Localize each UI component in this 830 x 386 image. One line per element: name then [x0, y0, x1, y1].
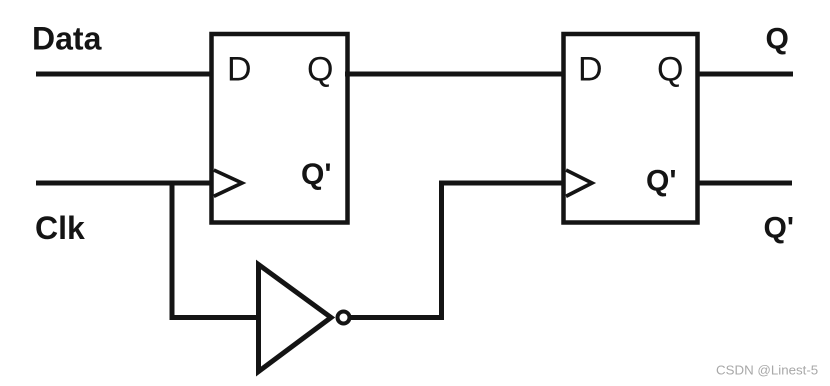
svg-text:D: D	[578, 51, 603, 89]
wire inverted clock rise to FF2 clock level	[439, 181, 444, 321]
svg-text:Data: Data	[32, 21, 102, 57]
svg-text:Clk: Clk	[35, 210, 85, 246]
wire junction drop from Clk line down to inverter input	[170, 181, 175, 321]
wire inverter output horizontal segment	[350, 315, 444, 320]
wire FF2 Q' output	[696, 181, 792, 186]
wire Clk input to FF1 clock pin	[36, 181, 215, 186]
svg-text:Q: Q	[766, 23, 789, 56]
svg-text:Q': Q'	[301, 158, 331, 191]
svg-text:Q': Q'	[646, 165, 676, 198]
inverter U3 output bubble	[338, 312, 350, 324]
inverter U3 triangle	[259, 265, 332, 372]
wire FF1 Q output to FF2 D input	[345, 72, 565, 77]
svg-text:Q: Q	[657, 51, 683, 89]
flip-flop U1 clock edge triangle	[214, 170, 242, 196]
svg-text:CSDN @Linest-5: CSDN @Linest-5	[716, 363, 818, 378]
flip-flop U1 box	[212, 34, 348, 223]
wire inverted clock to FF2 clock pin	[439, 181, 565, 186]
wire Data input to FF1 D pin	[36, 72, 213, 77]
wire FF2 Q output	[696, 72, 793, 77]
flip-flop U2 clock edge triangle	[566, 170, 592, 196]
wire inverter input horizontal segment	[170, 315, 262, 320]
flip-flop U2 box	[564, 34, 698, 223]
svg-text:Q': Q'	[764, 212, 794, 245]
svg-text:Q: Q	[307, 51, 333, 89]
svg-text:D: D	[227, 51, 252, 89]
